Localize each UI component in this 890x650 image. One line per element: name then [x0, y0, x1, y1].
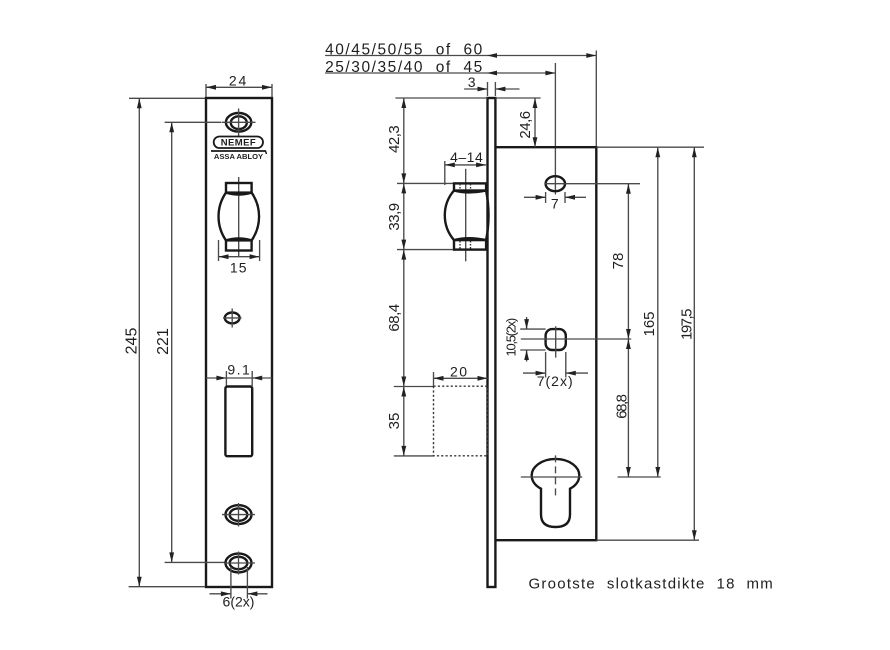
dim 6(2x) [230, 567, 232, 599]
extension case top right [596, 146, 704, 148]
dim 20 pocket depth [433, 372, 435, 386]
extension line plate top left [395, 97, 487, 99]
svg-text:3: 3 [468, 74, 476, 90]
extension hub top [397, 182, 453, 184]
dim 221 hole spacing [165, 121, 222, 123]
dim 4-14 follower [444, 161, 446, 185]
centerline top [554, 63, 556, 195]
dim 9.1 cutout width [225, 371, 227, 386]
dim 68,4 [403, 250, 405, 387]
svg-text:10,5(2x): 10,5(2x) [504, 318, 519, 356]
dim 165 [657, 147, 659, 477]
euro cylinder hole [521, 455, 583, 527]
svg-text:245: 245 [123, 328, 140, 355]
dim 24,6 [495, 97, 540, 99]
dim 25/30/35/40 of 45 [325, 72, 555, 74]
lower screw hole upper [222, 503, 255, 527]
faceplate front view outline [206, 98, 272, 587]
svg-text:35: 35 [386, 413, 403, 430]
dim 42,3 [403, 98, 405, 183]
dim 7 [545, 192, 547, 203]
latch hub side view [445, 169, 489, 261]
faceplate side view [488, 98, 496, 587]
svg-text:25/30/35/40 of 45: 25/30/35/40 of 45 [325, 59, 484, 76]
svg-text:78: 78 [610, 253, 627, 270]
case top hole 7mm [545, 176, 565, 191]
NEMEF logo [211, 137, 267, 162]
follower square hole [521, 326, 631, 357]
svg-text:7: 7 [551, 196, 559, 212]
dim 10,5(2x) [520, 328, 545, 330]
svg-text:33,9: 33,9 [386, 203, 403, 230]
svg-text:15: 15 [230, 260, 248, 276]
latch bolt front view [219, 177, 260, 257]
svg-text:7(2x): 7(2x) [537, 373, 574, 389]
extension hub bottom [397, 249, 453, 251]
svg-text:NEMEF: NEMEF [221, 138, 256, 149]
rectangular cutout [225, 387, 252, 457]
svg-text:ASSA ABLOY: ASSA ABLOY [214, 152, 263, 161]
lower screw hole bottom [225, 552, 255, 575]
dim 78 [627, 184, 629, 339]
lock case outline [495, 147, 596, 540]
extension case bottom right [596, 539, 699, 541]
svg-text:42,3: 42,3 [386, 126, 403, 153]
svg-text:165: 165 [641, 311, 658, 336]
svg-text:24,6: 24,6 [517, 111, 534, 138]
small center hole [223, 309, 242, 328]
dim 40/45/50/55 of 60 [325, 55, 596, 57]
dim 68,8 [627, 339, 629, 477]
svg-text:68,4: 68,4 [386, 304, 403, 331]
extension top hole center right [565, 183, 640, 185]
svg-text:20: 20 [450, 363, 469, 379]
dim 24 width [205, 84, 207, 97]
dim 15 latch width [218, 240, 220, 261]
dim 35 [394, 386, 434, 388]
svg-text:9.1: 9.1 [227, 361, 251, 377]
extension cylinder center right [618, 476, 661, 478]
svg-text:68,8: 68,8 [614, 394, 631, 418]
dim 7(2x) [545, 352, 547, 378]
dim 3 faceplate thickness [487, 82, 489, 96]
svg-text:24: 24 [229, 73, 248, 89]
top screw hole [222, 109, 256, 137]
svg-text:4–14: 4–14 [450, 149, 483, 165]
dim 245 overall height [129, 97, 205, 99]
dim 197,5 [693, 147, 695, 540]
svg-text:Grootste slotkastdikte 18 m: Grootste slotkastdikte 18 mm [529, 576, 775, 593]
extension line case back top [595, 51, 597, 147]
svg-text:197,5: 197,5 [678, 309, 695, 340]
svg-text:40/45/50/55 of 60: 40/45/50/55 of 60 [325, 41, 484, 58]
dashed pocket box [434, 386, 488, 456]
dim 33,9 [403, 183, 405, 249]
svg-text:221: 221 [155, 328, 172, 355]
svg-text:6(2x): 6(2x) [223, 594, 255, 610]
